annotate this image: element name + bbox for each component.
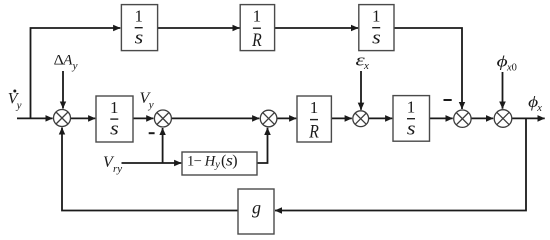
- summer S6: [494, 110, 512, 128]
- wire block 1-Hy(s) output up into summer S3: [257, 128, 268, 163]
- label phi_x0: [497, 53, 517, 73]
- wire integrator to summer S5: [430, 117, 453, 119]
- svg-text:R: R: [308, 121, 319, 142]
- svg-text:x: x: [363, 60, 369, 72]
- svg-text:ry: ry: [113, 163, 122, 175]
- svg-text:1: 1: [253, 7, 262, 26]
- svg-text:y: y: [148, 99, 154, 111]
- summer S4: [353, 111, 369, 127]
- summer S1: [54, 110, 71, 127]
- minus sign at summer S2 lower input: [149, 132, 155, 134]
- label delta A_y: [54, 53, 78, 72]
- wire summer S6 to output phi_x: [512, 117, 545, 119]
- fraction text 1/s in middle integrator: [110, 98, 119, 140]
- wire summer S5 to summer S6: [471, 117, 493, 119]
- wire top 1/R output to top right integrator: [275, 27, 359, 29]
- svg-text:x0: x0: [506, 63, 517, 74]
- svg-text:s: s: [372, 28, 381, 48]
- integrator block top left 1/s: [121, 5, 157, 51]
- wire delta A_y input arrow into summer S1: [62, 71, 64, 109]
- fraction text 1/s in top right integrator: [372, 7, 381, 49]
- label epsilon_x: [356, 50, 370, 72]
- wire phi_x0 input arrow into summer S6: [502, 72, 504, 109]
- svg-text:y: y: [72, 60, 78, 72]
- wire summer S3 to block 1/R: [277, 117, 297, 119]
- text 1-Hy(s) in block: [187, 152, 238, 170]
- fraction text 1/R in middle block: [308, 98, 319, 142]
- summer S3: [260, 110, 277, 127]
- label V_ry input: [103, 154, 122, 175]
- fraction text 1/s in middle right integrator: [407, 98, 416, 140]
- minus sign at summer S5 upper input: [444, 99, 452, 101]
- fraction text 1/R in top block: [251, 7, 262, 51]
- label phi_x output: [528, 94, 542, 114]
- wire integrator output node V_y to summer S2: [133, 117, 153, 119]
- svg-text:ϕ: ϕ: [497, 53, 508, 70]
- svg-text:1: 1: [310, 98, 319, 117]
- wire summer S1 to integrator 1/s: [71, 117, 96, 119]
- svg-text:1: 1: [110, 98, 119, 117]
- block middle 1/R: [297, 96, 331, 142]
- gain block g: [238, 189, 274, 234]
- wire summer S4 to integrator 1/s right: [369, 117, 393, 119]
- summer S5: [454, 110, 471, 127]
- svg-text:s: s: [110, 120, 119, 140]
- svg-text:1: 1: [407, 98, 416, 117]
- wire g block output left and up into summer S1: [62, 128, 238, 211]
- wire summer S2 to summer S3: [171, 117, 259, 119]
- integrator block top right 1/s: [359, 5, 394, 51]
- block top 1/R: [240, 5, 274, 51]
- svg-text:g: g: [252, 197, 261, 217]
- wire top right integrator output down into summer S5: [394, 28, 462, 109]
- svg-text:1: 1: [372, 7, 381, 26]
- label V_y node: [140, 90, 154, 111]
- wire top integrator U2 output to 1/R block: [158, 27, 240, 29]
- svg-text:s: s: [407, 119, 416, 139]
- text g in gain block: [252, 197, 261, 217]
- wire branch up from input to top integrator: [31, 28, 121, 118]
- svg-text:y: y: [16, 99, 22, 111]
- svg-text:1: 1: [134, 7, 143, 26]
- integrator block middle 1/s: [96, 96, 133, 142]
- label Vdot_y input: [8, 90, 22, 112]
- wire epsilon_x input arrow into summer S4: [360, 71, 362, 110]
- block 1-Hy(s): [182, 152, 257, 175]
- summer S2: [154, 110, 171, 127]
- svg-text:x: x: [536, 103, 542, 114]
- wire branch up from V_ry line into summer S2 minus input: [162, 128, 164, 163]
- fraction text 1/s in top left integrator: [134, 7, 143, 49]
- wire input Vdot_y to summer S1: [17, 117, 53, 119]
- wire feedback branch down from output through to g block: [275, 118, 526, 210]
- svg-text:A: A: [62, 53, 73, 69]
- svg-text:R: R: [251, 30, 262, 51]
- svg-text:s: s: [135, 28, 144, 48]
- svg-text:1−Hy(s): 1−Hy(s): [187, 152, 238, 170]
- wire V_ry input to block 1-Hy(s): [122, 162, 182, 164]
- wire block 1/R to summer S4: [331, 117, 351, 119]
- integrator block middle right 1/s: [393, 96, 430, 142]
